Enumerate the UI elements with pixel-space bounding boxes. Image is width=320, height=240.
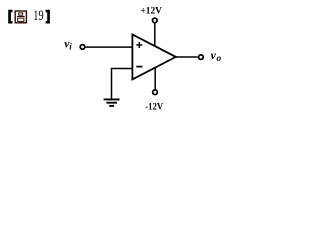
op-amp plus sign [136,42,142,48]
op-amp minus sign [136,66,142,68]
svg-text:vi: vi [64,38,72,51]
svg-text:+12V: +12V [140,6,162,17]
figure title bracket right [46,10,50,24]
terminal -12V [153,90,158,95]
svg-text:-12V: -12V [145,101,163,112]
terminal vo [199,55,204,60]
wire ground to op-amp - input [112,69,132,99]
wire vi to op-amp + input [86,46,132,48]
svg-text:19: 19 [33,8,43,24]
terminal +12V [153,18,158,23]
terminal vi [80,45,85,50]
wire op-amp bottom to -12V terminal [154,68,156,90]
svg-text:vo: vo [211,50,222,64]
figure title glyph 圖 [15,11,26,23]
wire op-amp output to vo terminal [176,56,198,58]
ground [104,99,120,106]
figure title bracket left [8,10,12,24]
op-amp U1 [132,35,175,80]
wire +12V to op-amp top [154,23,156,46]
